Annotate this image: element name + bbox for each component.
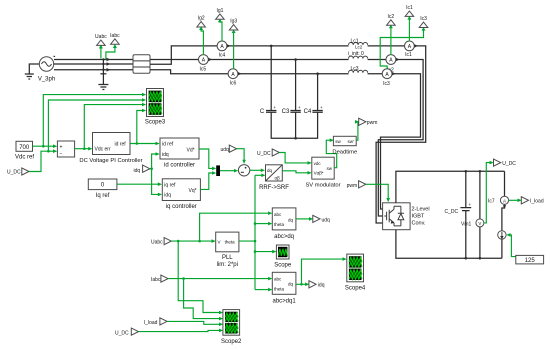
svg-text:Deadtime: Deadtime: [332, 149, 357, 155]
goto flag Ig2: [197, 16, 206, 27]
goto tag I_load: [521, 197, 544, 205]
svg-text:C: C: [260, 109, 265, 115]
svg-text:Scope4: Scope4: [345, 286, 366, 292]
svg-text:Ic7: Ic7: [488, 199, 495, 205]
svg-text:Iq ref: Iq ref: [96, 193, 110, 199]
wire: abc>dq out to udq goto: [296, 217, 313, 221]
wire: Iabc tag to abc>dq1: [168, 277, 272, 281]
svg-text:Conv.: Conv.: [412, 220, 426, 226]
wire: abc>dq1 out to idq goto and Scope4: [296, 257, 347, 286]
svg-text:pwm: pwm: [367, 120, 378, 126]
goto flag Ic3: [419, 16, 428, 27]
from tag U_DC (bottom): [115, 328, 139, 336]
ground (source): [25, 74, 34, 79]
svg-text:C_DC: C_DC: [445, 209, 459, 215]
wire: Vdcref to Scope3 in1: [42, 93, 146, 148]
wire: U_DC tag to Scope2 in4: [139, 329, 224, 333]
svg-text:2-Level: 2-Level: [412, 206, 430, 212]
wire: idq tag split to id and iq controllers: [150, 152, 162, 196]
svg-text:125: 125: [525, 258, 536, 264]
block RRF->SRF: [259, 165, 289, 191]
ammeter load branch: [500, 171, 508, 258]
svg-text:V: V: [218, 240, 221, 245]
svg-text:A: A: [503, 198, 506, 203]
wire: cap C drop: [270, 46, 272, 111]
wire: phase bus row1 (source to transformer): [54, 59, 133, 61]
svg-text:iq ref: iq ref: [164, 183, 176, 189]
wire: U_DC to Scope3 in2: [47, 98, 146, 152]
svg-text:Ic2: Ic2: [387, 14, 394, 20]
wire: U_DC tag to sum minus: [29, 149, 57, 171]
svg-text:U_DC: U_DC: [502, 161, 516, 167]
node: cap tap row2: [294, 58, 297, 61]
svg-text:Vd*: Vd*: [187, 147, 195, 153]
from tag U_DC (mid): [257, 149, 279, 157]
from tag idq: [134, 165, 150, 174]
capacitor C3: [282, 105, 301, 115]
label Ic7: [488, 199, 495, 205]
svg-text:Scope2: Scope2: [221, 339, 242, 345]
goto tag udq: [313, 215, 330, 223]
wire: U_DC tag to SV vdc input: [279, 153, 311, 165]
inductor Lc2: [349, 56, 368, 61]
svg-text:Iabc: Iabc: [151, 277, 161, 283]
ammeter Ic4: [217, 41, 231, 58]
wire: SV sw out to Deadtime: [326, 138, 336, 167]
svg-text:sw: sw: [335, 139, 341, 144]
svg-text:Ic6: Ic6: [230, 80, 237, 86]
svg-text:vdc: vdc: [314, 161, 322, 166]
svg-text:abc>dq1: abc>dq1: [272, 298, 296, 304]
svg-text:Ic3: Ic3: [383, 81, 390, 87]
from tag Iabc: [151, 275, 168, 283]
svg-text:lim: 2*pi: lim: 2*pi: [217, 262, 238, 268]
wire: star point to ground: [100, 60, 106, 85]
wire: Vq* to mux: [200, 171, 216, 189]
goto flag Ig1: [216, 8, 225, 19]
block Deadtime: [332, 136, 357, 155]
svg-text:SV modulator: SV modulator: [305, 183, 340, 189]
wire: Uabc to abc>dq abc input: [200, 211, 273, 241]
wire: cap C4 drop: [317, 74, 319, 111]
wire: source left lead: [29, 64, 39, 74]
svg-text:idq: idq: [162, 152, 169, 158]
svg-text:udq: udq: [322, 217, 331, 223]
wire: ammeter to I_load goto: [509, 199, 522, 203]
label i_init: [348, 51, 364, 57]
svg-text:pwm: pwm: [347, 183, 358, 189]
svg-text:IGBT: IGBT: [412, 213, 425, 219]
svg-text:+: +: [274, 105, 277, 110]
svg-text:+: +: [320, 105, 323, 110]
svg-text:700: 700: [19, 145, 30, 151]
svg-text:dq: dq: [288, 282, 294, 287]
wire: theta to Scope: [255, 250, 276, 254]
ground (star point): [98, 85, 108, 90]
svg-text:U_DC: U_DC: [257, 151, 271, 157]
block abc>dq1: [272, 272, 296, 304]
svg-text:+: +: [469, 202, 472, 207]
block SV modulator: [305, 157, 340, 189]
wire: mux to sum circle: [220, 169, 238, 173]
from tag U_DC (left): [7, 168, 29, 176]
wire: bottom phase (drops at fan, wraps to converter): [150, 70, 421, 209]
node: cap tap row3: [316, 72, 319, 75]
svg-text:Lc3: Lc3: [351, 66, 359, 72]
svg-text:Vdc err: Vdc err: [95, 147, 111, 153]
svg-text:Ig1: Ig1: [217, 8, 224, 14]
svg-text:id ref: id ref: [162, 142, 174, 148]
svg-text:V: V: [478, 221, 481, 226]
wire: phase bus row3 (source to transformer): [54, 69, 133, 71]
scope Scope2: [221, 310, 242, 346]
svg-text:Scope3: Scope3: [145, 120, 166, 126]
svg-text:V_3ph: V_3ph: [38, 77, 55, 83]
goto flag Ig3: [229, 19, 238, 30]
svg-text:+: +: [60, 144, 63, 150]
converter 2-Level IGBT Conv.: [383, 203, 430, 230]
svg-text:U_DC: U_DC: [115, 330, 129, 336]
svg-text:idq: idq: [164, 193, 171, 199]
svg-text:theta: theta: [274, 222, 285, 227]
wire: sum circle to RRF: [250, 169, 265, 173]
wire: 700 to sum: [33, 144, 58, 148]
goto tag pwm (top): [359, 118, 378, 126]
svg-text:sw: sw: [327, 166, 333, 171]
wire: Vdc err to Scope3 in3: [83, 103, 146, 150]
wire: theta to abc>dq: [255, 222, 272, 226]
svg-text:U_DC: U_DC: [7, 170, 21, 176]
svg-text:idq: idq: [318, 283, 325, 289]
wire: Ic2 to flag: [389, 25, 393, 55]
goto flag Ic1: [405, 5, 414, 16]
svg-text:C3: C3: [282, 109, 290, 115]
svg-text:id ref: id ref: [115, 142, 127, 148]
svg-text:Ic1: Ic1: [405, 52, 412, 58]
goto tag U_DC (top right): [494, 159, 517, 167]
wire: Ic3 to flag: [380, 27, 425, 69]
wire: Vd* to mux: [199, 149, 216, 170]
svg-text:DC Voltage PI Controller: DC Voltage PI Controller: [79, 158, 142, 164]
from tag pwm (right): [347, 181, 366, 189]
svg-text:Ic5: Ic5: [199, 66, 206, 72]
ammeter Ic3: [382, 69, 396, 87]
wire: 0 to iq controller: [117, 182, 162, 186]
voltmeter Vm1: [461, 170, 484, 260]
svg-text:Ic4: Ic4: [219, 52, 226, 58]
svg-text:sw': sw': [348, 139, 354, 144]
inductor Lc3: [349, 66, 368, 75]
block iq controller: [162, 179, 200, 210]
wire: Ic4 to flag Ig1: [218, 19, 222, 42]
svg-text:Uabc: Uabc: [151, 240, 163, 246]
svg-text:Ig3: Ig3: [230, 19, 237, 25]
wire: Uabc tag to PLL: [171, 239, 215, 243]
wire: sum to PI controller: [75, 147, 93, 151]
svg-text:Lc2: Lc2: [355, 44, 363, 49]
svg-text:+: +: [298, 105, 301, 110]
svg-text:dq: dq: [267, 168, 273, 173]
svg-text:PLL: PLL: [222, 255, 233, 261]
wire: Deadtime out to pwm goto: [355, 120, 359, 140]
svg-text:Ig2: Ig2: [198, 16, 205, 22]
svg-text:Ic3: Ic3: [420, 16, 427, 22]
capacitor C: [260, 105, 277, 115]
wire: DC plus rail: [396, 171, 505, 203]
wire: top phase (rises at fan, wraps to converter): [150, 46, 426, 223]
svg-text:I_load: I_load: [530, 199, 544, 205]
wire: udq tag to sum circle top: [237, 149, 246, 164]
from tag Uabc: [151, 238, 171, 246]
block abc>dq: [272, 208, 296, 240]
wire: Iabc branch to Scope2 in2: [184, 279, 224, 321]
wire: id ref to Scope3 in4: [136, 109, 147, 145]
sum block: [57, 141, 74, 157]
scope Scope (single): [274, 245, 292, 268]
svg-text:udq: udq: [221, 147, 230, 153]
capacitor C4: [304, 105, 323, 115]
svg-text:RRF->SRF: RRF->SRF: [259, 185, 289, 191]
svg-text:dq: dq: [288, 217, 294, 222]
constant 125: [516, 255, 544, 264]
wire: RRF theta input from bus: [255, 174, 266, 178]
svg-text:Ic1: Ic1: [406, 5, 413, 11]
mux: [216, 165, 220, 176]
scope Scope3: [145, 89, 166, 126]
ammeter Ic2: [386, 55, 400, 74]
wire: RRF out to SV modulator: [282, 171, 311, 175]
svg-text:Vq*: Vq*: [189, 188, 197, 194]
svg-text:abc: abc: [274, 212, 282, 217]
wire: middle phase after transformer (straight to right, wraps to converter): [150, 60, 423, 217]
svg-text:αβ: αβ: [275, 176, 281, 181]
goto flag Ic2: [387, 14, 396, 25]
wire: 125 to current source: [506, 233, 516, 257]
block DC Voltage PI Controller: [79, 133, 142, 164]
wire: theta bus: [239, 175, 256, 289]
svg-text:Scope: Scope: [274, 262, 292, 268]
svg-text:Uabc: Uabc: [95, 34, 107, 40]
wire: Ic6 to flag Ig3: [232, 30, 236, 70]
wire: theta to abc>dq1: [255, 288, 272, 292]
svg-text:−: −: [60, 151, 63, 157]
wire: DC minus rail: [396, 230, 502, 259]
current source: [498, 231, 506, 240]
node: cap tap row1: [270, 45, 273, 48]
from tag udq (upper): [221, 145, 237, 153]
svg-text:abc>dq: abc>dq: [274, 234, 294, 240]
svg-text:Vdc ref: Vdc ref: [15, 154, 34, 160]
wire: Vm1 to U_DC goto: [484, 161, 494, 223]
voltage source V_3ph: [38, 56, 55, 83]
constant 700 (Vdc ref): [15, 141, 34, 160]
svg-text:idq: idq: [134, 168, 141, 174]
wire: phase bus row2 (source to transformer): [54, 63, 133, 65]
goto flag Iabc: [106, 33, 120, 60]
voltmeter tap arrows: [107, 58, 111, 72]
wire: I_load tag to Scope2 in3: [167, 321, 223, 326]
svg-text:theta: theta: [225, 240, 236, 245]
from tag I_load: [144, 318, 167, 326]
constant 0 (Iq ref): [88, 179, 117, 199]
block PLL: [216, 232, 239, 268]
svg-text:Iabc: Iabc: [110, 33, 120, 39]
svg-text:iq controller: iq controller: [166, 204, 197, 210]
wire: Ic1 to flag: [407, 16, 411, 41]
capacitor C_DC: [445, 170, 472, 260]
wire: PI out (id ref) to id controller: [130, 142, 160, 146]
ammeter Ic1: [405, 41, 419, 58]
svg-text:Vαβ*: Vαβ*: [314, 171, 324, 176]
ammeter Ic6: [228, 69, 242, 87]
node: measurement taps dots: [102, 58, 104, 71]
svg-text:theta: theta: [274, 287, 285, 292]
svg-text:abc: abc: [274, 276, 282, 281]
wire: pwm tag to converter gate: [366, 184, 390, 202]
svg-text:C4: C4: [304, 109, 312, 115]
inductor Lc1: [349, 39, 368, 50]
svg-text:I_load: I_load: [144, 320, 158, 326]
sum circle: [238, 165, 249, 176]
transformer block: [133, 55, 150, 73]
scope Scope4: [345, 254, 366, 291]
goto flag Uabc: [95, 34, 107, 59]
svg-text:Vm1: Vm1: [461, 221, 472, 227]
wire: capacitor bottom rail: [271, 112, 317, 139]
ammeter Ic5: [199, 55, 213, 73]
wire: cap C3 drop: [295, 60, 297, 111]
svg-text:id controller: id controller: [164, 162, 195, 168]
goto tag idq: [309, 281, 325, 289]
block id controller: [160, 138, 199, 168]
wire: Uabc branch to Scope2 in1: [178, 241, 223, 314]
wire: Ic5 to flag Ig2: [199, 27, 203, 55]
